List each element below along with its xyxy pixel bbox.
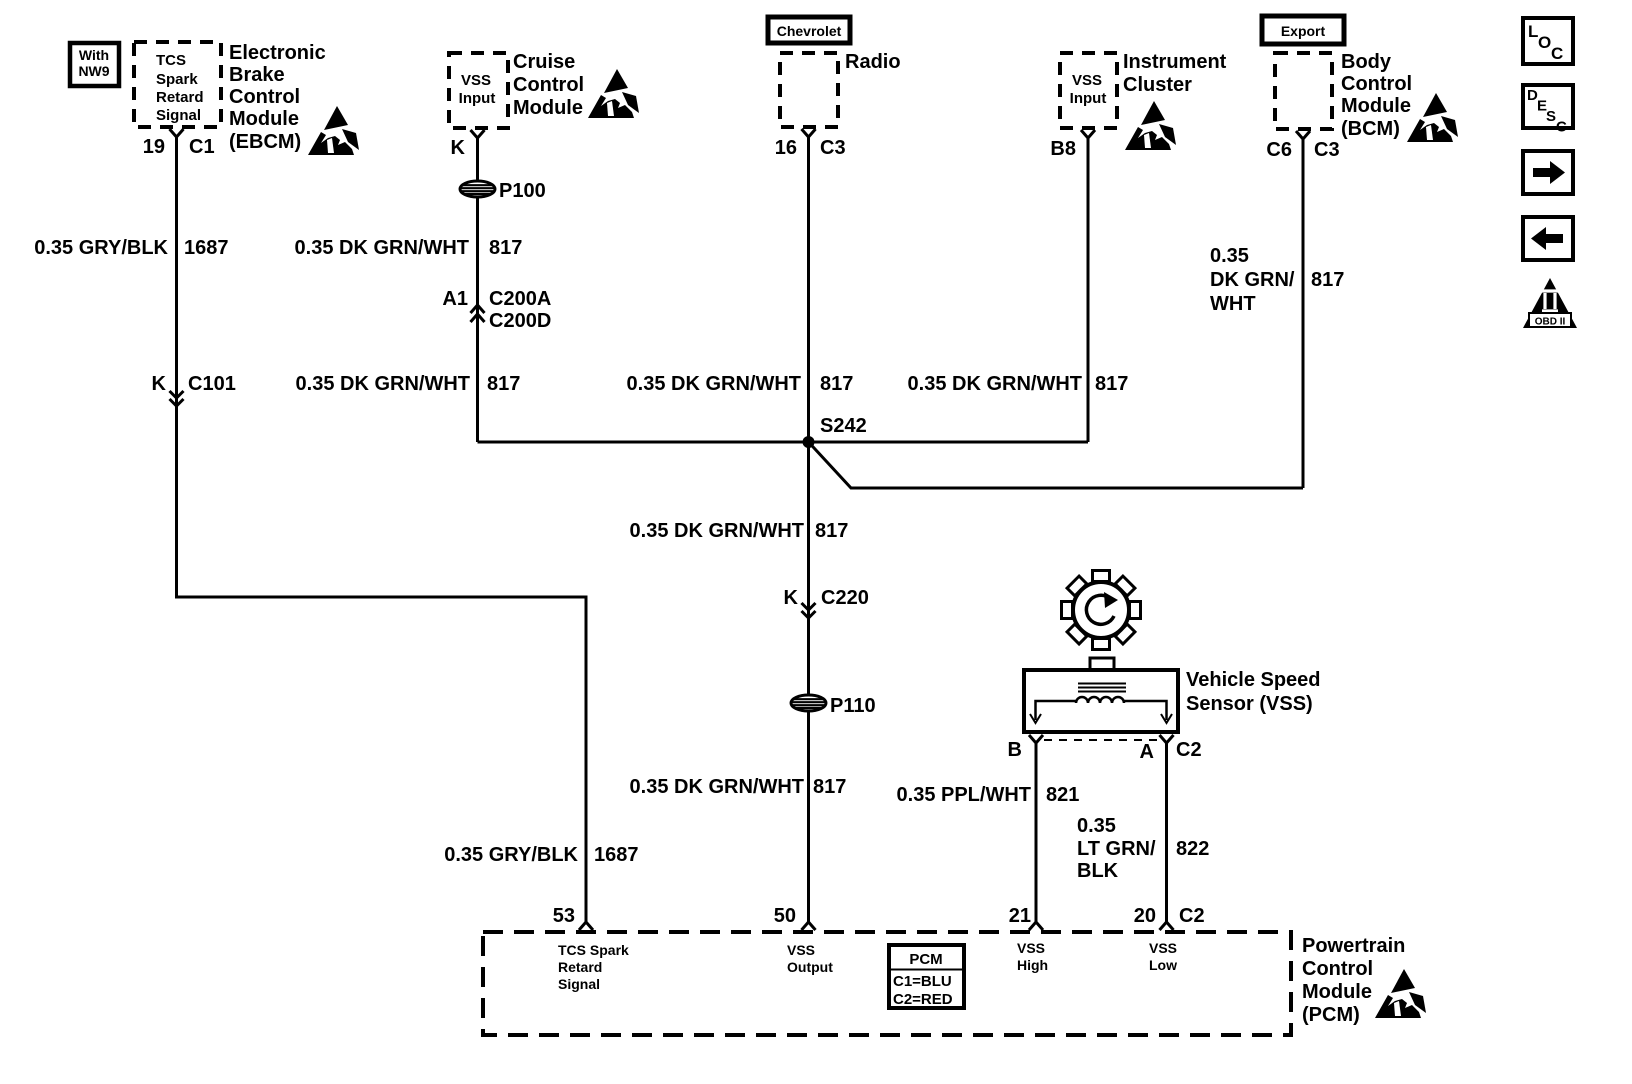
svg-text:C1=BLU: C1=BLU bbox=[893, 973, 952, 990]
svg-text:B8: B8 bbox=[1050, 138, 1076, 160]
wire Cruise pinK down to splice row (circuit 817) bbox=[476, 138, 479, 442]
svg-text:20: 20 bbox=[1134, 905, 1156, 927]
svg-text:L: L bbox=[1528, 22, 1538, 41]
svg-text:C2=RED: C2=RED bbox=[893, 991, 953, 1008]
svg-text:Brake: Brake bbox=[229, 64, 285, 86]
svg-text:K: K bbox=[784, 587, 799, 609]
VSS reluctor gear bbox=[1062, 571, 1141, 650]
svg-text:BLK: BLK bbox=[1077, 860, 1119, 882]
svg-text:With: With bbox=[79, 47, 109, 63]
pin B of VSS bbox=[1008, 735, 1043, 761]
svg-text:C101: C101 bbox=[188, 373, 236, 395]
svg-text:C3: C3 bbox=[820, 137, 846, 159]
svg-text:Input: Input bbox=[459, 90, 496, 107]
pin A C2 of VSS bbox=[1140, 735, 1202, 763]
wire Instrument pinB8 down to splice row bbox=[1087, 138, 1090, 442]
pin 21 of PCM bbox=[1009, 905, 1048, 973]
svg-text:817: 817 bbox=[489, 237, 522, 259]
svg-text:Module: Module bbox=[513, 97, 583, 119]
svg-text:P110: P110 bbox=[830, 695, 876, 717]
svg-text:VSS: VSS bbox=[1149, 940, 1177, 956]
svg-text:Retard: Retard bbox=[558, 959, 602, 975]
module Instrument Cluster dashed box bbox=[1060, 53, 1117, 128]
splice branch wire to BCM bbox=[809, 442, 1304, 488]
svg-text:C2: C2 bbox=[1176, 739, 1202, 761]
connector C101 pass-through chevrons bbox=[152, 373, 236, 406]
svg-text:Cluster: Cluster bbox=[1123, 74, 1192, 96]
svg-text:VSS: VSS bbox=[461, 72, 491, 89]
svg-text:Cruise: Cruise bbox=[513, 51, 575, 73]
svg-text:Chevrolet: Chevrolet bbox=[777, 23, 842, 39]
svg-text:817: 817 bbox=[1095, 373, 1128, 395]
svg-text:0.35 GRY/BLK: 0.35 GRY/BLK bbox=[444, 844, 578, 866]
svg-text:OBD II: OBD II bbox=[1535, 317, 1566, 328]
wire VSS pinB down to PCM pin21 (circuit 821) bbox=[1035, 743, 1038, 922]
label 0.35 DK GRN/WHT 817 (cruise lower) bbox=[296, 373, 521, 395]
svg-text:O: O bbox=[1538, 33, 1551, 52]
svg-text:0.35 DK GRN/WHT: 0.35 DK GRN/WHT bbox=[630, 520, 804, 542]
module Cruise Control Module dashed box bbox=[449, 53, 508, 128]
svg-text:1687: 1687 bbox=[594, 844, 639, 866]
ESD symbol Instrument Cluster bbox=[1125, 101, 1176, 150]
svg-text:817: 817 bbox=[815, 520, 848, 542]
svg-text:K: K bbox=[451, 137, 466, 159]
forward arrow icon box bbox=[1523, 151, 1573, 194]
svg-text:822: 822 bbox=[1176, 838, 1209, 860]
svg-text:Module: Module bbox=[1302, 981, 1372, 1003]
svg-text:Export: Export bbox=[1281, 23, 1326, 39]
svg-text:0.35 PPL/WHT: 0.35 PPL/WHT bbox=[897, 784, 1031, 806]
svg-text:WHT: WHT bbox=[1210, 293, 1256, 315]
DESC icon box bbox=[1523, 85, 1573, 136]
module PCM (Powertrain Control Module) dashed box bbox=[483, 932, 1291, 1035]
Instrument Cluster label bbox=[1123, 51, 1227, 96]
svg-text:0.35: 0.35 bbox=[1210, 245, 1249, 267]
connector P110 bbox=[791, 695, 876, 717]
ESD symbol PCM bbox=[1375, 969, 1426, 1018]
svg-text:C200A: C200A bbox=[489, 288, 551, 310]
svg-text:C: C bbox=[1556, 119, 1567, 136]
OBD II triangle icon bbox=[1523, 278, 1577, 328]
Chevrolet option box bbox=[768, 17, 850, 43]
svg-text:821: 821 bbox=[1046, 784, 1079, 806]
svg-text:C: C bbox=[1551, 44, 1563, 63]
svg-text:(EBCM): (EBCM) bbox=[229, 131, 301, 153]
svg-text:0.35 DK GRN/WHT: 0.35 DK GRN/WHT bbox=[627, 373, 801, 395]
svg-text:C220: C220 bbox=[821, 587, 869, 609]
svg-text:P100: P100 bbox=[499, 180, 546, 202]
wire VSS pinA down to PCM pin20 (circuit 822) bbox=[1165, 743, 1168, 922]
svg-text:0.35: 0.35 bbox=[1077, 815, 1116, 837]
label 0.35 DK GRN/WHT 817 (above PCM) bbox=[630, 776, 847, 798]
svg-text:817: 817 bbox=[487, 373, 520, 395]
connector P100 bbox=[460, 180, 546, 202]
svg-text:Radio: Radio bbox=[845, 51, 901, 73]
svg-text:(PCM): (PCM) bbox=[1302, 1004, 1360, 1026]
connector C220 pass-through chevrons bbox=[784, 587, 869, 618]
svg-text:Input: Input bbox=[1070, 90, 1107, 107]
pin 16 C3 of Radio bbox=[775, 129, 846, 159]
svg-text:Signal: Signal bbox=[156, 107, 201, 124]
svg-text:0.35 DK GRN/WHT: 0.35 DK GRN/WHT bbox=[630, 776, 804, 798]
svg-text:DK GRN/: DK GRN/ bbox=[1210, 269, 1295, 291]
svg-text:NW9: NW9 bbox=[78, 63, 109, 79]
pin 20 C2 of PCM bbox=[1134, 905, 1205, 973]
svg-text:817: 817 bbox=[1311, 269, 1344, 291]
svg-text:Low: Low bbox=[1149, 957, 1177, 973]
Cruise Control Module label bbox=[513, 51, 584, 119]
svg-text:B: B bbox=[1008, 739, 1022, 761]
svg-text:Body: Body bbox=[1341, 51, 1392, 73]
svg-text:Sensor (VSS): Sensor (VSS) bbox=[1186, 693, 1313, 715]
EBCM label bbox=[229, 42, 326, 153]
svg-text:A: A bbox=[1140, 741, 1154, 763]
pin B8 of Instrument Cluster bbox=[1050, 130, 1095, 160]
label 0.35 GRY/BLK 1687 lower bbox=[444, 844, 638, 866]
svg-text:VSS: VSS bbox=[1017, 940, 1045, 956]
label 0.35 LT GRN/BLK 822 (stacked) bbox=[1077, 815, 1209, 882]
label 0.35 DK GRN/WHT 817 (radio above splice) bbox=[627, 373, 854, 395]
label 0.35 DK GRN/WHT 817 (instrument) bbox=[908, 373, 1129, 395]
Vehicle Speed Sensor body bbox=[1024, 658, 1178, 732]
With NW9 option box bbox=[70, 43, 119, 86]
svg-text:0.35 GRY/BLK: 0.35 GRY/BLK bbox=[34, 237, 168, 259]
module Radio dashed box bbox=[780, 53, 838, 127]
svg-text:VSS: VSS bbox=[787, 942, 815, 958]
svg-text:C3: C3 bbox=[1314, 139, 1340, 161]
svg-text:S242: S242 bbox=[820, 415, 867, 437]
svg-text:Module: Module bbox=[1341, 95, 1411, 117]
label 0.35 PPL/WHT 821 bbox=[897, 784, 1080, 806]
svg-text:VSS: VSS bbox=[1072, 72, 1102, 89]
pin 53 of PCM bbox=[553, 905, 629, 992]
connector C200A/C200D chevrons bbox=[442, 288, 551, 332]
label 0.35 DK GRN/WHT 817 (BCM, stacked) bbox=[1210, 245, 1344, 315]
PCM label bbox=[1302, 935, 1405, 1026]
svg-text:(BCM): (BCM) bbox=[1341, 118, 1400, 140]
ESD symbol BCM bbox=[1407, 93, 1458, 142]
svg-text:Vehicle Speed: Vehicle Speed bbox=[1186, 669, 1321, 691]
svg-text:Control: Control bbox=[1302, 958, 1373, 980]
svg-text:Signal: Signal bbox=[558, 976, 600, 992]
svg-text:Powertrain: Powertrain bbox=[1302, 935, 1405, 957]
svg-text:Spark: Spark bbox=[156, 71, 198, 88]
svg-text:Output: Output bbox=[787, 959, 833, 975]
svg-text:C6: C6 bbox=[1266, 139, 1292, 161]
module EBCM (Electronic Brake Control Module) dashed box bbox=[134, 42, 221, 127]
LOC icon box bbox=[1523, 18, 1573, 64]
svg-text:Instrument: Instrument bbox=[1123, 51, 1227, 73]
Export option box bbox=[1262, 16, 1344, 44]
svg-text:50: 50 bbox=[774, 905, 796, 927]
svg-text:C2: C2 bbox=[1179, 905, 1205, 927]
svg-text:817: 817 bbox=[820, 373, 853, 395]
wire Radio pin16 down to PCM pin50 (circuit 817) bbox=[807, 137, 810, 922]
svg-text:Module: Module bbox=[229, 108, 299, 130]
BCM label bbox=[1341, 51, 1412, 140]
svg-text:19: 19 bbox=[143, 136, 165, 158]
svg-text:0.35 DK GRN/WHT: 0.35 DK GRN/WHT bbox=[296, 373, 470, 395]
svg-text:817: 817 bbox=[813, 776, 846, 798]
svg-text:0.35 DK GRN/WHT: 0.35 DK GRN/WHT bbox=[295, 237, 469, 259]
Vehicle Speed Sensor label bbox=[1186, 669, 1321, 715]
ESD symbol Cruise bbox=[588, 69, 639, 118]
pin C6 C3 of BCM bbox=[1266, 131, 1339, 161]
label 0.35 DK GRN/WHT 817 (below splice) bbox=[630, 520, 849, 542]
svg-text:0.35 DK GRN/WHT: 0.35 DK GRN/WHT bbox=[908, 373, 1082, 395]
svg-text:1687: 1687 bbox=[184, 237, 229, 259]
svg-text:53: 53 bbox=[553, 905, 575, 927]
ESD symbol EBCM bbox=[308, 106, 359, 155]
splice S242 bbox=[803, 415, 867, 448]
svg-text:PCM: PCM bbox=[909, 951, 942, 968]
wire BCM pinC6 down (circuit 817) bbox=[1302, 139, 1305, 488]
label 0.35 GRY/BLK 1687 upper bbox=[34, 237, 228, 259]
pin 50 of PCM bbox=[774, 905, 833, 975]
pin 19 C1 of EBCM bbox=[143, 129, 215, 158]
label 0.35 DK GRN/WHT 817 (cruise) bbox=[295, 237, 523, 259]
svg-text:21: 21 bbox=[1009, 905, 1031, 927]
svg-text:C1: C1 bbox=[189, 136, 215, 158]
svg-text:TCS: TCS bbox=[156, 52, 186, 69]
svg-text:S: S bbox=[1546, 108, 1556, 125]
splice bus wire (cruise to instrument) bbox=[478, 441, 1089, 444]
back arrow icon box bbox=[1523, 217, 1573, 260]
pin K of Cruise bbox=[451, 130, 485, 159]
svg-text:16: 16 bbox=[775, 137, 797, 159]
VSS connector face dashed line bbox=[1044, 739, 1159, 741]
svg-text:Control: Control bbox=[1341, 73, 1412, 95]
svg-text:Control: Control bbox=[513, 74, 584, 96]
svg-text:LT GRN/: LT GRN/ bbox=[1077, 838, 1156, 860]
wire EBCM pin19 down-right-down to PCM pin53 (circuit 1687) bbox=[177, 137, 587, 922]
svg-text:High: High bbox=[1017, 957, 1048, 973]
svg-text:A1: A1 bbox=[442, 288, 468, 310]
svg-text:K: K bbox=[152, 373, 167, 395]
svg-text:TCS Spark: TCS Spark bbox=[558, 942, 629, 958]
svg-text:Retard: Retard bbox=[156, 89, 204, 106]
PCM connector legend box bbox=[889, 945, 964, 1008]
svg-text:C200D: C200D bbox=[489, 310, 551, 332]
svg-text:Electronic: Electronic bbox=[229, 42, 326, 64]
module BCM (Body Control Module) dashed box bbox=[1275, 53, 1332, 129]
svg-text:Control: Control bbox=[229, 86, 300, 108]
